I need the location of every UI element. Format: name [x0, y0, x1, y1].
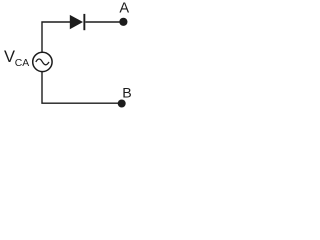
svg-text:V: V — [4, 48, 15, 66]
wire: top-left corner from vertical riser to diode anode — [42, 22, 71, 53]
diode D1 cathode bar — [83, 14, 85, 30]
wire: source bottom to bottom-left corner to node B — [42, 72, 118, 104]
AC source V_CA circle — [33, 52, 52, 71]
node A terminal dot — [119, 18, 127, 26]
node B terminal dot — [118, 100, 126, 108]
AC source sine wave — [36, 59, 49, 65]
svg-text:CA: CA — [15, 58, 30, 69]
svg-text:B: B — [122, 86, 131, 102]
svg-text:A: A — [119, 1, 129, 17]
diode D1 triangle (anode) — [70, 15, 83, 29]
wire: diode cathode to node A — [85, 21, 120, 23]
